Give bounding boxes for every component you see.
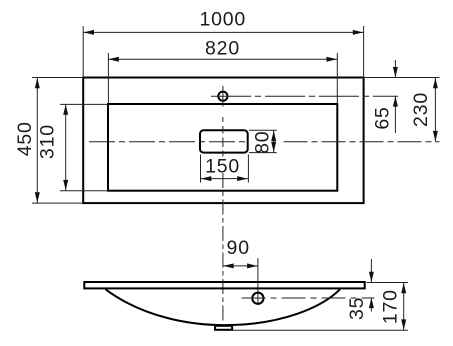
svg-text:170: 170 — [380, 289, 402, 324]
svg-text:150: 150 — [205, 156, 240, 178]
svg-text:450: 450 — [14, 121, 36, 156]
svg-text:230: 230 — [410, 92, 432, 127]
svg-text:310: 310 — [37, 124, 59, 159]
svg-text:80: 80 — [252, 131, 274, 154]
svg-text:35: 35 — [346, 297, 368, 320]
svg-text:65: 65 — [372, 106, 394, 129]
svg-text:820: 820 — [205, 38, 240, 60]
svg-text:90: 90 — [227, 237, 250, 259]
svg-text:1000: 1000 — [200, 9, 247, 31]
